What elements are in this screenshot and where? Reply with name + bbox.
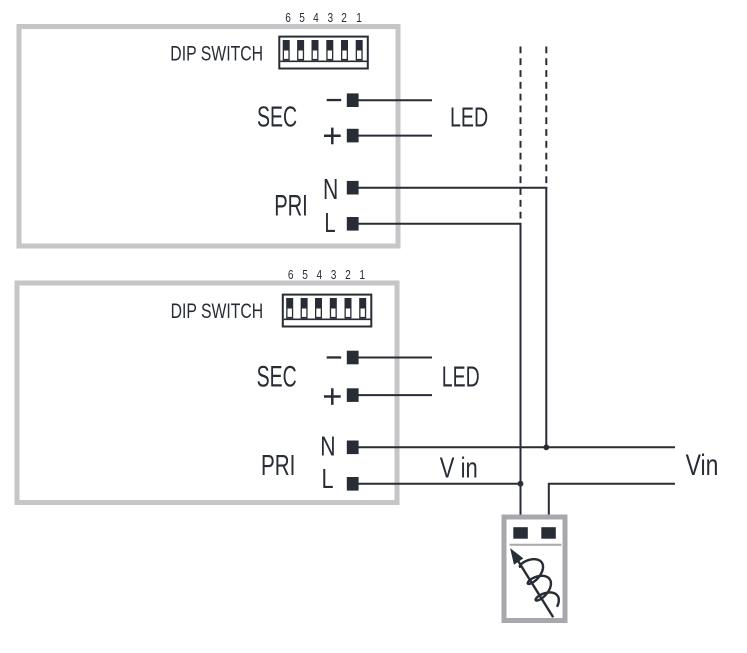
dip switch S1 pin numbers 6 5 4 3 2 1	[285, 10, 362, 26]
svg-text:V in: V in	[440, 453, 478, 484]
wire L bus vertical	[520, 224, 522, 528]
terminal dimmer left pad	[513, 527, 528, 539]
minus sign (U1 SEC-)	[327, 99, 342, 101]
terminal U1 N pad	[347, 181, 359, 195]
svg-text:2: 2	[341, 10, 347, 26]
svg-text:N: N	[320, 432, 335, 462]
wire U2 L horizontal	[352, 483, 521, 485]
wire U2 SEC- to LED	[352, 357, 432, 359]
terminal dimmer right pad	[541, 527, 556, 539]
svg-text:6: 6	[288, 267, 294, 283]
plus sign (U2 SEC+)	[324, 388, 341, 405]
svg-text:L: L	[324, 208, 335, 239]
svg-text:3: 3	[327, 10, 333, 26]
wire U2 SEC+ to LED	[352, 394, 432, 396]
junction node L bus	[518, 481, 524, 487]
terminal U1 L pad	[347, 217, 359, 231]
svg-text:Vin: Vin	[686, 448, 719, 481]
svg-text:5: 5	[302, 267, 308, 283]
wire N bus vertical	[545, 188, 547, 448]
potentiometer coil RV1	[520, 559, 559, 606]
svg-text:LED: LED	[450, 102, 488, 133]
junction node N bus	[543, 444, 549, 450]
terminal U2 SEC+ pad	[347, 388, 359, 402]
dip switch S1	[279, 37, 368, 69]
svg-text:SEC: SEC	[257, 361, 297, 394]
terminal U2 L pad	[347, 477, 359, 491]
wire U1 SEC- to LED	[352, 99, 432, 101]
dimmer / potentiometer module outline	[504, 517, 565, 621]
wire U1 L horizontal	[352, 223, 522, 225]
svg-text:1: 1	[356, 10, 362, 26]
wire U1 N horizontal	[352, 187, 547, 189]
plus sign (U1 SEC+)	[324, 128, 341, 145]
terminal U2 N pad	[347, 441, 359, 455]
svg-text:3: 3	[331, 267, 337, 283]
svg-text:L: L	[322, 463, 334, 494]
terminal U1 SEC- pad	[347, 93, 359, 107]
wire U2 N to Vin	[352, 446, 675, 448]
LED driver U1 outline	[19, 27, 398, 247]
dip switch S2 pin numbers 6 5 4 3 2 1	[288, 267, 365, 283]
terminal U1 SEC+ pad	[347, 129, 359, 143]
svg-text:1: 1	[359, 267, 365, 283]
svg-text:4: 4	[313, 10, 319, 26]
svg-text:PRI: PRI	[261, 451, 295, 482]
svg-text:5: 5	[299, 10, 305, 26]
svg-text:DIP SWITCH: DIP SWITCH	[170, 41, 263, 65]
svg-text:LED: LED	[442, 362, 480, 394]
LED driver U2 outline	[17, 283, 397, 503]
minus sign (U2 SEC-)	[327, 356, 342, 358]
svg-text:DIP SWITCH: DIP SWITCH	[171, 299, 264, 323]
dip switch S2	[283, 295, 372, 327]
wire Vin feed with drop to dimmer	[549, 484, 675, 528]
svg-text:2: 2	[345, 267, 351, 283]
svg-text:4: 4	[316, 267, 322, 283]
svg-text:SEC: SEC	[257, 102, 297, 134]
svg-text:N: N	[323, 174, 338, 206]
wire dashed line (future driver)	[520, 47, 522, 224]
potentiometer arrow	[511, 549, 553, 617]
terminal U2 SEC- pad	[347, 351, 359, 365]
wire U1 SEC+ to LED	[352, 135, 432, 137]
svg-text:PRI: PRI	[274, 190, 308, 223]
svg-text:6: 6	[285, 10, 291, 26]
wire dashed neutral (future driver)	[545, 47, 547, 188]
dimmer divider line	[510, 544, 562, 546]
